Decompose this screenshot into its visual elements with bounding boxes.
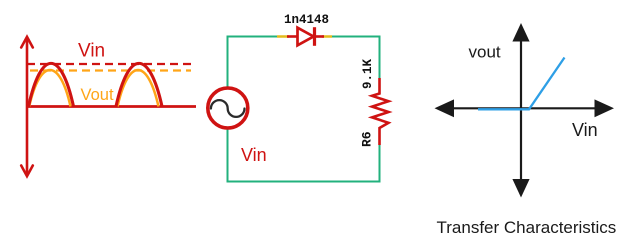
svg-text:Vin: Vin — [78, 41, 105, 62]
svg-text:Vout: Vout — [81, 86, 114, 104]
svg-text:1n4148: 1n4148 — [284, 13, 329, 27]
svg-text:9.1K: 9.1K — [361, 58, 375, 89]
svg-text:Vin: Vin — [241, 145, 267, 165]
svg-text:vout: vout — [469, 43, 501, 62]
svg-text:Vin: Vin — [572, 120, 598, 140]
svg-text:Transfer Characteristics: Transfer Characteristics — [437, 218, 617, 237]
svg-text:R6: R6 — [360, 131, 375, 147]
